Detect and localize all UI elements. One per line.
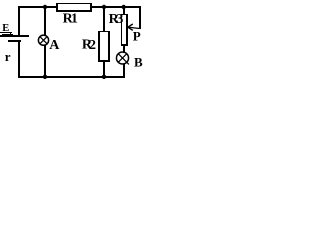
svg-text:3: 3 bbox=[116, 12, 123, 27]
svg-text:E: E bbox=[2, 23, 9, 34]
svg-text:2: 2 bbox=[89, 38, 96, 53]
svg-text:1: 1 bbox=[71, 12, 78, 27]
svg-text:A: A bbox=[49, 38, 60, 53]
svg-text:P: P bbox=[133, 28, 141, 43]
svg-text:r: r bbox=[5, 49, 11, 64]
svg-text:B: B bbox=[134, 55, 143, 70]
